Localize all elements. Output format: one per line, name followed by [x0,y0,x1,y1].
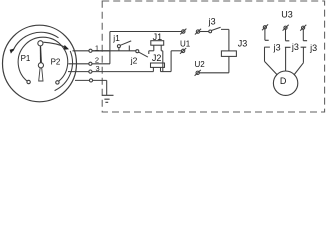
contact j2 blade [139,52,148,57]
contact j2 fixed post [148,51,150,54]
row B wire to J1 coil [149,50,154,52]
dashed enclosure box [102,1,324,112]
riser wire [170,51,172,72]
P2 leader arc from top pivot [43,42,65,47]
pressure gauge P outer circle [3,25,77,102]
contact j3 phase1 [264,29,277,75]
fuse U3 a [263,26,266,29]
wire terminal 4 to ground [75,80,107,95]
ground [102,95,114,102]
pivot 2 circle [38,63,43,68]
motor D circle [273,71,297,95]
svg-text:P1: P1 [21,54,31,63]
wire U2 to J3 coil [199,56,229,72]
svg-text:P2: P2 [51,58,61,67]
relay coil J2 [151,63,165,67]
svg-text:J1: J1 [153,32,163,42]
svg-text:j2: j2 [130,56,138,66]
contact j1 pivot ring [117,45,120,48]
top bus wire [110,31,182,33]
right inner arc [55,51,73,91]
junction riser T1/T2 to top bus [109,32,111,64]
needle 1 [40,46,42,63]
svg-text:j1: j1 [112,33,120,43]
P1 direction arc [13,32,59,51]
terminal circle 3 [89,70,92,73]
relay coil J1 [151,41,164,46]
P2 arrowhead [64,45,69,50]
scale arc contact circle right [56,81,59,84]
wire to fuse U1 lower [171,50,181,52]
terminal circle 4 [89,79,92,82]
J1 coil legs [154,45,161,51]
wire fuse2 to contact [200,31,209,33]
contact j1 fixed post [128,46,130,51]
svg-text:J3: J3 [238,38,248,48]
wire terminal 3 [68,71,153,73]
svg-text:j3: j3 [208,16,216,26]
contact j3 top pivot ring [209,30,212,33]
scale arc [18,37,68,82]
top pivot circle [38,41,43,46]
svg-text:U1: U1 [180,40,191,49]
relay coil J3 [221,51,236,57]
row B wire segment right [161,50,163,52]
needle 2 outline [39,68,43,81]
row C wire segment [161,71,172,73]
J2 coil legs [153,67,160,71]
svg-text:3: 3 [96,64,100,73]
contact j2 pivot ring [136,50,139,53]
drop wire [162,51,164,72]
fuse U1 lower [181,49,184,52]
svg-text:2: 2 [95,55,99,64]
svg-text:j3: j3 [291,42,299,52]
terminal circle 1 [89,49,92,52]
svg-text:U3: U3 [281,10,293,20]
wire terminal 2 [68,63,110,65]
wire J3 coil top [221,29,229,51]
fuse U1 upper [182,30,185,33]
contact j3 top blade [211,27,220,30]
terminal circle 2 [89,62,92,65]
P1 arrowhead [10,48,15,53]
fuse top row 2 [196,30,199,33]
contact j3 phase3 [294,29,307,74]
fuse U2 [196,71,199,74]
svg-text:j3: j3 [273,42,281,52]
fuse U3 b [284,26,287,29]
wire terminal 1 [73,50,110,52]
svg-text:D: D [280,76,287,86]
contact j1 blade [120,41,131,45]
contact j3 phase2 [285,29,291,71]
row B wire [92,50,136,52]
svg-text:J2: J2 [152,53,162,63]
svg-text:U2: U2 [195,60,206,69]
svg-text:j3: j3 [309,43,317,53]
fuse U3 c [302,26,305,29]
scale arc contact circle left [27,80,30,83]
